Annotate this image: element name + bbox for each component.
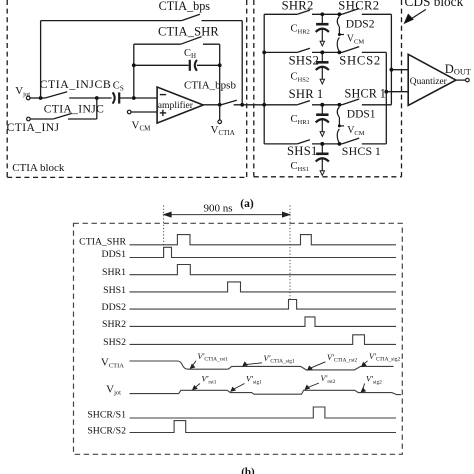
svg-text:CTIA_bps: CTIA_bps [159,0,211,13]
svg-text:(b): (b) [241,466,255,474]
svg-text:SHS1: SHS1 [287,144,318,158]
svg-text:SHCS2: SHCS2 [339,54,381,68]
svg-text:Quantizer: Quantizer [410,77,448,87]
svg-text:CTIA_bpsb: CTIA_bpsb [184,79,236,91]
svg-text:SHCR/S1: SHCR/S1 [87,409,126,420]
svg-text:CTIA_INJCB: CTIA_INJCB [40,77,112,91]
svg-text:CTIA_SHR: CTIA_SHR [79,236,126,247]
svg-text:SHCR2: SHCR2 [338,0,379,12]
svg-text:CTIA_SHR: CTIA_SHR [158,25,219,39]
svg-text:DDS2: DDS2 [346,19,375,31]
svg-text:900 ns: 900 ns [203,202,232,214]
svg-text:CTIA block: CTIA block [12,162,65,174]
svg-text:DDS2: DDS2 [102,302,127,313]
svg-text:CDS block: CDS block [405,0,464,9]
svg-text:SHCS 1: SHCS 1 [342,144,381,158]
svg-text:CTIA_INJ: CTIA_INJ [7,121,60,134]
svg-text:SHR2: SHR2 [102,319,126,330]
svg-text:SHS1: SHS1 [103,285,126,296]
svg-text:SHS2: SHS2 [103,337,126,348]
svg-text:SHR2: SHR2 [282,0,314,12]
svg-text:SHCR 1: SHCR 1 [345,87,387,101]
svg-text:SHCR/S2: SHCR/S2 [87,426,126,437]
svg-text:SHS2: SHS2 [289,54,320,68]
svg-text:DDS1: DDS1 [347,109,376,121]
svg-text:DDS1: DDS1 [102,249,127,260]
svg-text:SHR 1: SHR 1 [289,87,324,101]
svg-text:CTIA_INJC: CTIA_INJC [44,102,104,115]
svg-text:(a): (a) [240,198,254,210]
svg-text:SHR1: SHR1 [102,267,126,278]
svg-text:amplifier: amplifier [158,100,194,111]
